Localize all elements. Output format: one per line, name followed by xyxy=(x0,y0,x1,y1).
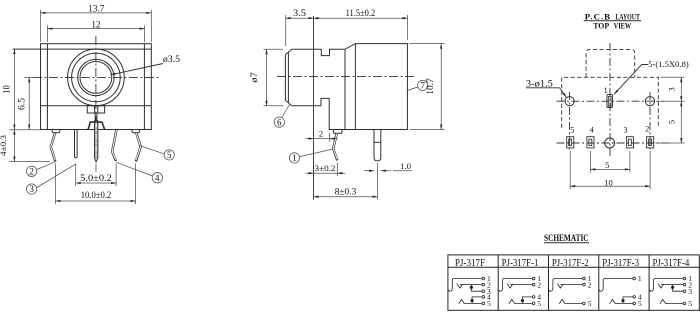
dim 4±0.3 left xyxy=(9,130,50,162)
svg-text:6: 6 xyxy=(277,117,282,127)
pin3 straight pin xyxy=(75,130,78,158)
svg-text:5: 5 xyxy=(667,120,677,124)
callout circle 7 xyxy=(407,80,427,90)
pcb bottom row centerline xyxy=(557,142,670,144)
svg-text:3: 3 xyxy=(688,287,692,296)
svg-text:10.7: 10.7 xyxy=(426,78,436,95)
dim 10.7 side xyxy=(410,44,445,130)
svg-text:11.5±0.2: 11.5±0.2 xyxy=(346,9,376,19)
svg-text:SCHEMATIC: SCHEMATIC xyxy=(544,233,589,244)
leg pin2 collar xyxy=(52,129,60,132)
side pin1 wire xyxy=(333,133,337,160)
svg-text:5: 5 xyxy=(588,299,592,308)
pcb pad 4 xyxy=(587,137,594,148)
svg-text:TOP: TOP xyxy=(593,21,610,31)
svg-text:3: 3 xyxy=(667,87,677,91)
pcb dim 5 bottom xyxy=(590,151,630,173)
leg pin5 collar xyxy=(132,129,140,132)
barrel right edge / reference line xyxy=(313,16,315,200)
body outline front view xyxy=(41,44,152,130)
svg-text:PJ-317F-4: PJ-317F-4 xyxy=(653,258,690,269)
svg-text:1: 1 xyxy=(604,86,608,95)
svg-text:10.0±0.2: 10.0±0.2 xyxy=(81,191,112,201)
wire sleeve to pin1 xyxy=(448,279,482,292)
svg-text:5: 5 xyxy=(688,299,692,308)
dim 10.0±0.2 xyxy=(56,164,136,205)
svg-text:7: 7 xyxy=(420,81,425,91)
svg-text:12: 12 xyxy=(91,21,101,31)
leg pin2 wire xyxy=(51,133,56,162)
pcb dim 10 bottom xyxy=(570,151,650,189)
svg-text:5: 5 xyxy=(570,126,574,135)
svg-text:ø7: ø7 xyxy=(250,72,260,83)
callout circle 5 xyxy=(139,146,174,161)
svg-text:4: 4 xyxy=(590,126,594,135)
dim 8±0.3 side xyxy=(314,163,378,200)
svg-text:PJ-317F: PJ-317F xyxy=(455,258,486,269)
body inner face left edge xyxy=(46,44,48,130)
schematic cell PJ-317F xyxy=(448,277,484,305)
body inner bottom step edge xyxy=(41,105,152,107)
side centerline xyxy=(277,76,415,78)
pcb center circle bottom xyxy=(605,138,615,148)
svg-text:2: 2 xyxy=(319,129,323,139)
wire pin4 xyxy=(472,297,482,304)
pcb leader 3-ø1.5 xyxy=(526,88,566,98)
svg-text:PJ-317F-1: PJ-317F-1 xyxy=(502,258,539,269)
schematic cell PJ-317F-4 xyxy=(650,277,686,305)
callout circle 4 xyxy=(116,162,162,183)
dim 3.5 side xyxy=(286,15,314,46)
pcb dim 3 right xyxy=(656,77,685,101)
svg-text:10: 10 xyxy=(604,177,613,187)
svg-text:3±0.2: 3±0.2 xyxy=(315,163,336,173)
pcb pad 2 xyxy=(647,137,654,148)
pin1 boss trapezoid xyxy=(88,122,105,129)
svg-text:5: 5 xyxy=(605,160,609,170)
pcb pad 5 xyxy=(567,137,574,148)
svg-text:10: 10 xyxy=(2,85,12,94)
svg-text:1: 1 xyxy=(638,274,642,283)
svg-text:5-(1.5X0.8): 5-(1.5X0.8) xyxy=(648,59,689,69)
dim 3±0.2 side xyxy=(306,163,346,177)
ring contact to pin5 xyxy=(459,299,482,303)
svg-text:3: 3 xyxy=(624,126,628,135)
svg-text:5: 5 xyxy=(167,150,172,160)
svg-text:6.5: 6.5 xyxy=(17,98,27,110)
pcb title underline xyxy=(584,20,642,22)
svg-text:4: 4 xyxy=(155,173,160,183)
side right pin xyxy=(374,130,381,161)
NC contact wire pin3 xyxy=(471,285,482,292)
pcb right hole vertical centerline xyxy=(649,92,651,152)
dim 11.5±0.2 side xyxy=(314,15,408,40)
terminal circles xyxy=(482,277,485,280)
schematic cell PJ-317F-2 xyxy=(549,277,585,305)
svg-text:3-ø1.5: 3-ø1.5 xyxy=(526,79,554,89)
jack circle ring2 xyxy=(72,53,121,102)
jack circle outer xyxy=(68,49,125,106)
pin1 shield pin (gray) xyxy=(94,113,96,121)
svg-text:2: 2 xyxy=(645,125,649,134)
schematic cell PJ-317F-3 xyxy=(599,277,635,305)
dim 2 side xyxy=(306,134,338,142)
dim 12 xyxy=(47,26,144,43)
dim 1.0 side xyxy=(364,170,412,172)
leader ø3.5 xyxy=(111,64,164,75)
pcb dim 5 right xyxy=(656,101,685,143)
tip contact v xyxy=(457,284,463,288)
callout circle 3 xyxy=(26,164,75,194)
internal vertical chamfer lines xyxy=(344,49,346,129)
svg-text:5: 5 xyxy=(638,299,642,308)
pcb pad 3 xyxy=(626,137,633,148)
svg-text:ø3.5: ø3.5 xyxy=(163,55,180,65)
leg pin4 wire xyxy=(112,130,116,161)
pcb center slot 1 xyxy=(607,94,613,107)
pcb hole right xyxy=(645,97,654,106)
dim 13.7 xyxy=(41,10,152,42)
svg-text:PJ-317F-3: PJ-317F-3 xyxy=(602,258,639,269)
callout circle 1 xyxy=(289,149,333,163)
pcb left hole vertical centerline xyxy=(569,92,571,152)
svg-text:2: 2 xyxy=(588,280,592,289)
side pin1 collar xyxy=(333,130,342,134)
svg-text:5: 5 xyxy=(487,299,491,308)
jack circle ring3 xyxy=(78,59,114,95)
pcb leader 5-(1.5X0.8) xyxy=(614,65,648,95)
svg-text:1.0: 1.0 xyxy=(400,161,412,171)
svg-text:1: 1 xyxy=(292,153,297,163)
body inner top step edge xyxy=(13,48,152,50)
callout circle 2 xyxy=(26,162,55,177)
pcb vertical centerline xyxy=(609,43,611,158)
pcb dashed bump outline xyxy=(586,49,635,77)
svg-text:2: 2 xyxy=(29,167,34,177)
svg-text:5: 5 xyxy=(537,299,541,308)
pcb dashed body outline xyxy=(562,77,659,128)
horizontal centerline front xyxy=(33,76,160,78)
svg-text:3: 3 xyxy=(29,184,34,194)
svg-text:8±0.3: 8±0.3 xyxy=(335,188,357,198)
svg-text:PJ-317F-2: PJ-317F-2 xyxy=(552,258,589,269)
jack hole circle xyxy=(80,62,112,94)
svg-text:VIEW: VIEW xyxy=(614,21,632,31)
dim 6.5 left xyxy=(24,77,33,129)
wire tip to pin2 xyxy=(460,284,482,286)
body inner face right edge xyxy=(143,44,145,130)
svg-text:5.0±0.2: 5.0±0.2 xyxy=(80,174,112,184)
leg pin5 wire xyxy=(136,133,141,162)
pin1 tab below hole xyxy=(87,106,104,113)
dim 5.0±0.2 xyxy=(76,164,116,187)
schematic terminal numbers xyxy=(487,274,692,308)
callout circle 6 xyxy=(274,105,289,128)
barrel outline xyxy=(285,49,291,105)
svg-text:3.5: 3.5 xyxy=(293,9,306,19)
svg-text:4±0.3: 4±0.3 xyxy=(0,134,8,156)
schematic title underline xyxy=(544,242,589,244)
svg-text:13.7: 13.7 xyxy=(88,5,105,15)
svg-text:2: 2 xyxy=(537,280,541,289)
table frame xyxy=(448,255,699,310)
pcb top row centerline xyxy=(557,100,664,102)
dim 10 left xyxy=(13,49,15,129)
dim ø7 side xyxy=(264,49,284,105)
vertical centerline front xyxy=(95,36,97,120)
top profile with notch xyxy=(314,44,408,130)
schematic cell PJ-317F-1 xyxy=(499,277,535,305)
pcb hole left xyxy=(565,97,574,106)
